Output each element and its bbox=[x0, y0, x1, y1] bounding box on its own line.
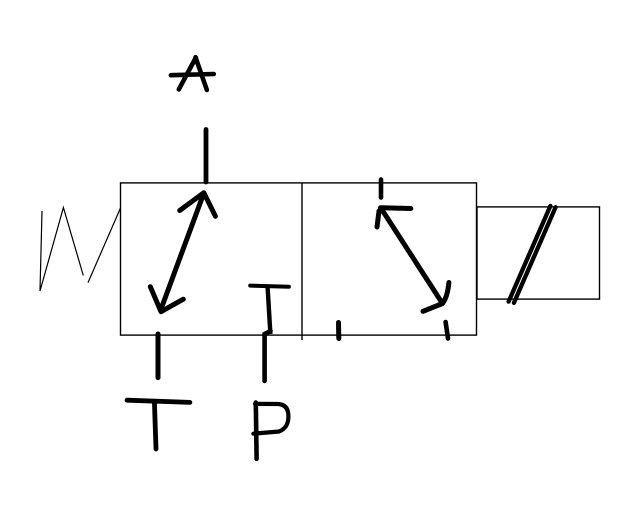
left arrow shaft bbox=[162, 194, 204, 307]
solenoid double slash stroke 1 bbox=[509, 206, 551, 302]
right box bottom-left tick bbox=[336, 323, 341, 339]
right arrow shaft bbox=[382, 209, 442, 302]
port label T bbox=[127, 400, 190, 449]
port A stub bbox=[204, 130, 209, 183]
port P stub bbox=[265, 331, 271, 381]
spring bbox=[40, 208, 121, 291]
right arrow top head bbox=[377, 208, 411, 227]
solenoid box bbox=[477, 207, 600, 299]
right arrow bottom head bbox=[423, 283, 449, 312]
port T stub bbox=[156, 334, 161, 378]
valve body outer box bbox=[121, 183, 477, 335]
position divider line bbox=[301, 183, 303, 340]
blocked port T symbol bbox=[250, 286, 289, 287]
port label P bbox=[254, 403, 259, 459]
left arrow top head bbox=[180, 193, 216, 217]
solenoid double slash stroke 2 bbox=[514, 207, 556, 303]
left arrow bottom head bbox=[150, 287, 183, 312]
port label A bbox=[171, 57, 214, 90]
right box top tick bbox=[379, 180, 384, 198]
right box bottom-right tick bbox=[446, 322, 448, 339]
